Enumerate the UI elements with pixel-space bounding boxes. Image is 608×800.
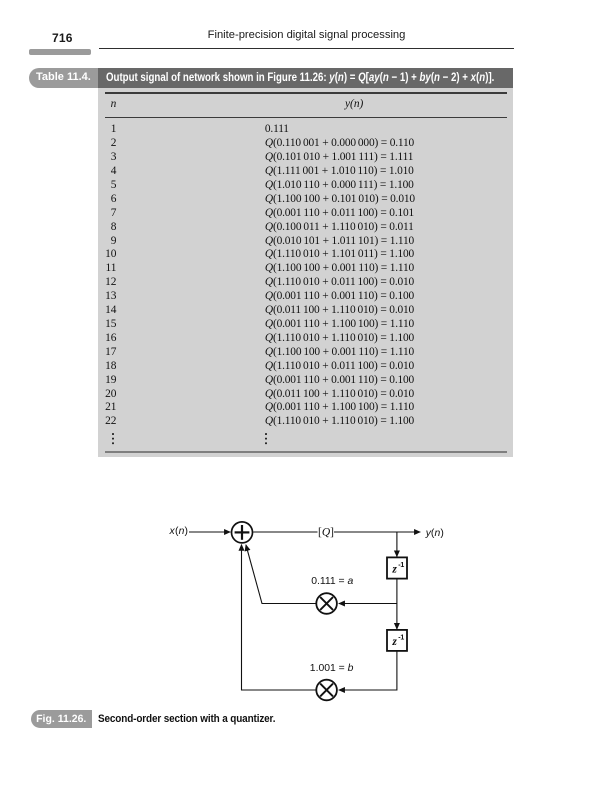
svg-text:): ) [440, 528, 443, 539]
svg-text:0.111 = a: 0.111 = a [311, 576, 353, 587]
svg-text:z: z [391, 563, 397, 575]
svg-text:): ) [185, 526, 188, 537]
svg-text:z: z [391, 636, 397, 648]
svg-text:[Q]: [Q] [318, 527, 334, 539]
svg-text:-1: -1 [398, 634, 404, 641]
svg-text:1.001 = b: 1.001 = b [310, 663, 354, 674]
svg-text:-1: -1 [398, 562, 404, 569]
